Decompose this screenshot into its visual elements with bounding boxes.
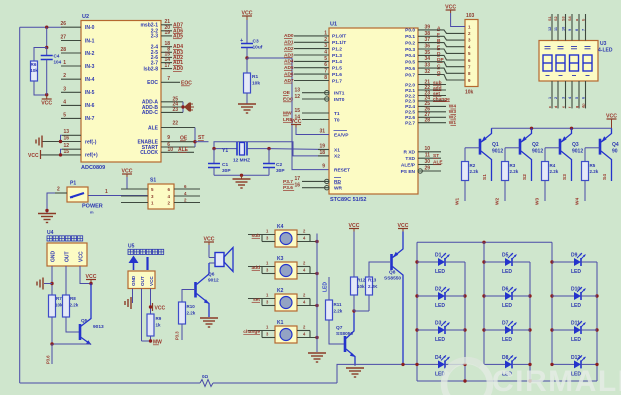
wire ALE-OE junction	[193, 128, 196, 148]
wire R13 to Q8 base	[369, 262, 390, 277]
speaker LS1	[209, 248, 233, 272]
wire base net W3	[535, 181, 546, 206]
ground below crystal	[233, 175, 251, 188]
VCC above Q4 rail	[606, 114, 617, 129]
svg-text:P1: P1	[70, 181, 76, 187]
svg-text:6: 6	[324, 62, 327, 68]
U1 pin 29 PSEN	[401, 166, 441, 175]
RP1 pin numbers 1-9	[468, 24, 471, 83]
resistor 0 ohm pad in bottom wire	[20, 374, 337, 387]
svg-text:P0.1: P0.1	[405, 34, 415, 40]
svg-text:Q7: Q7	[336, 325, 343, 331]
U2 pin 5 IN-7	[61, 112, 95, 122]
svg-text:9013: 9013	[93, 324, 104, 330]
svg-text:Q5: Q5	[81, 318, 88, 324]
wire K1 right to common	[297, 325, 319, 340]
svg-text:D5: D5	[502, 253, 509, 259]
svg-text:IN-4: IN-4	[85, 77, 95, 83]
svg-text:Q3: Q3	[572, 142, 579, 148]
svg-text:7: 7	[167, 76, 170, 82]
U1 pin 21 P2.0 net sub	[405, 79, 446, 88]
svg-text:2: 2	[57, 187, 60, 193]
svg-text:SS8050: SS8050	[336, 331, 353, 337]
svg-text:W3: W3	[535, 197, 541, 205]
svg-text:GND: GND	[131, 275, 136, 286]
svg-text:U5: U5	[128, 244, 135, 250]
U1 pin 28 P2.7 net W1	[405, 118, 456, 127]
resistor R11 2.2k	[326, 300, 343, 320]
U1 pin 32 P0.7 net G to RP1	[405, 69, 465, 80]
svg-text:9: 9	[568, 29, 572, 31]
svg-text:LED: LED	[435, 303, 445, 309]
wire P1 to ground	[45, 193, 55, 213]
svg-text:W2: W2	[495, 197, 501, 205]
U5 label hongwai jieshou mokuai	[128, 249, 164, 254]
svg-text:C1: C1	[222, 162, 228, 168]
wire LED matrix bottom return	[415, 363, 598, 383]
watermark CIRMALL	[444, 360, 621, 395]
U5 VCC wire	[149, 289, 152, 315]
svg-text:11: 11	[554, 27, 558, 31]
svg-text:IN-7: IN-7	[85, 116, 95, 122]
resistor network RP1 103 body	[465, 20, 478, 87]
wire Q5 emitter net	[50, 342, 91, 345]
U2 pin 28 IN-2	[60, 47, 94, 57]
svg-text:ref(-): ref(-)	[85, 139, 97, 145]
svg-text:13: 13	[294, 88, 300, 94]
U2 pin 14 2-7 net AD1	[151, 57, 183, 67]
U1 pin 23 P2.2 net set	[405, 90, 446, 99]
svg-text:INT0: INT0	[334, 97, 345, 103]
svg-text:U4: U4	[47, 230, 54, 236]
U1 pin 4 P1.3 net AD3	[284, 50, 342, 59]
svg-text:90: 90	[612, 149, 618, 155]
LED D10	[569, 287, 587, 310]
VCC tap at R9	[153, 303, 166, 312]
wire base net W2	[495, 181, 506, 206]
svg-text:T0: T0	[334, 117, 340, 123]
svg-text:CIRMALL: CIRMALL	[492, 365, 621, 395]
svg-text:P0.6: P0.6	[405, 66, 415, 72]
svg-text:4-LED: 4-LED	[598, 48, 613, 54]
svg-text:P2.0: P2.0	[405, 82, 415, 88]
svg-text:P1.1/T: P1.1/T	[332, 40, 346, 46]
wire K4 left net sub	[248, 229, 275, 242]
wire net P3.6	[46, 344, 53, 364]
svg-text:CLOCK: CLOCK	[140, 150, 158, 156]
svg-text:1: 1	[105, 189, 108, 195]
node Q8 collector to row4	[401, 363, 404, 366]
svg-text:P0.5: P0.5	[405, 60, 415, 66]
svg-text:P2.6: P2.6	[405, 115, 415, 121]
ground below R1	[238, 93, 256, 113]
resistor R13 2.2K	[366, 277, 373, 295]
U1 value label STC89C51/52	[330, 197, 366, 203]
svg-text:10: 10	[424, 146, 430, 152]
svg-text:K1: K1	[277, 320, 284, 326]
svg-text:U3: U3	[600, 41, 607, 47]
transistor Q5 9013	[80, 284, 104, 345]
svg-text:29: 29	[424, 166, 430, 172]
svg-text:2.2k: 2.2k	[550, 169, 559, 174]
connector S1 body	[148, 184, 174, 209]
U2 pin ref(+)	[41, 143, 98, 159]
svg-text:GND: GND	[51, 251, 57, 263]
wire LED column return x597	[595, 262, 598, 381]
svg-text:Q1: Q1	[492, 142, 499, 148]
LED D3	[433, 321, 451, 344]
svg-text:TXD: TXD	[405, 156, 415, 162]
U4 label renti ganying mokuai	[47, 236, 83, 241]
svg-text:17: 17	[294, 176, 300, 182]
svg-text:9: 9	[322, 164, 325, 170]
svg-text:LED: LED	[571, 337, 581, 343]
svg-text:S2: S2	[522, 174, 528, 180]
svg-text:P2.2: P2.2	[405, 93, 415, 99]
wire K2 left net set	[248, 293, 275, 306]
U5 ground	[125, 289, 133, 310]
svg-text:S1: S1	[548, 16, 552, 21]
svg-text:5: 5	[63, 112, 66, 118]
svg-text:ADD-C: ADD-C	[142, 110, 158, 116]
transistor Q7 SS8050	[336, 311, 355, 365]
U1 pin 2 P1.1/T net AD1	[284, 37, 346, 46]
svg-text:15: 15	[294, 108, 300, 114]
svg-text:R12: R12	[357, 278, 366, 283]
wire button common	[316, 234, 318, 353]
svg-text:P1.7: P1.7	[332, 78, 342, 84]
crystal junctions	[212, 147, 270, 150]
svg-text:IN-3: IN-3	[85, 64, 95, 70]
ground at Q7 emitter	[346, 365, 364, 378]
svg-text:Q8: Q8	[389, 270, 396, 276]
U1 pin 17 RD net P3.7	[283, 176, 341, 185]
wire LED row D11	[552, 329, 597, 331]
wire K4 right to common	[297, 229, 319, 244]
display segment pin marks	[545, 47, 591, 76]
VCC above Q8	[398, 223, 409, 232]
wire crystal to X1	[269, 148, 329, 151]
svg-text:9012: 9012	[532, 149, 543, 155]
svg-text:10k: 10k	[465, 90, 474, 96]
svg-text:R XD: R XD	[404, 150, 416, 156]
VCC tap at ref(+)	[28, 150, 41, 159]
svg-text:26: 26	[60, 21, 66, 27]
svg-text:2.2K: 2.2K	[368, 284, 378, 289]
U2 pin 26 IN-0	[20, 21, 95, 31]
VCC above C3	[242, 11, 253, 21]
svg-text:T1: T1	[334, 111, 340, 117]
U4 refdes	[47, 230, 54, 236]
svg-text:lsb2-8: lsb2-8	[144, 66, 159, 72]
U1 pin 24 P2.3 net change	[405, 96, 450, 105]
svg-text:X2: X2	[334, 154, 340, 160]
analog ground at U2 ref(-)	[36, 136, 42, 148]
crystal Y1 12MHZ	[214, 142, 269, 164]
U1 pin 15 T1 net MW	[283, 108, 340, 117]
wire LED column rail x484	[482, 242, 485, 364]
U2 pin 7 EOC	[147, 76, 192, 87]
svg-text:LED: LED	[571, 269, 581, 275]
wire LED column return x465	[463, 262, 466, 381]
svg-text:16: 16	[294, 183, 300, 189]
U1 pin 8 P1.7 net AD7	[284, 75, 342, 84]
svg-text:S1: S1	[482, 174, 488, 180]
wire LED row D2	[417, 295, 465, 297]
svg-text:P1.4: P1.4	[332, 59, 342, 65]
U1 pin 9 RESET	[322, 164, 350, 174]
svg-text:2-3: 2-3	[151, 34, 158, 40]
LED D6	[500, 287, 518, 310]
display bottom pin labels	[548, 96, 586, 108]
svg-text:P0.0: P0.0	[405, 28, 415, 34]
svg-text:RESET: RESET	[334, 167, 350, 173]
svg-text:VCC: VCC	[79, 251, 85, 262]
op-amp U1 STC89C52 body	[329, 28, 418, 194]
svg-text:R11: R11	[334, 302, 343, 307]
P1 tiny label	[90, 210, 94, 215]
ground below buttons	[308, 353, 326, 362]
svg-text:e: e	[562, 106, 566, 108]
wire LED matrix top rail	[417, 241, 552, 244]
capacitor C3 10uf electrolytic	[240, 20, 263, 58]
S1 refdes	[150, 178, 156, 184]
svg-text:WR: WR	[334, 186, 343, 192]
U1 pin 38 P0.1 net F to RP1	[405, 31, 465, 40]
VCC above speaker	[204, 237, 215, 246]
svg-text:D9: D9	[571, 253, 578, 259]
svg-text:OUT: OUT	[65, 251, 71, 262]
wire R6 bottom to node	[34, 81, 48, 96]
svg-text:10: 10	[562, 27, 566, 31]
svg-text:15: 15	[63, 149, 69, 155]
svg-text:C3: C3	[253, 39, 259, 45]
wire LED row D1	[417, 261, 465, 263]
U1 pin 33 P0.6 net C to RP1	[405, 63, 465, 74]
wire bottom step to LED row4	[337, 364, 417, 383]
svg-text:P1.6: P1.6	[332, 72, 342, 78]
U1 pin 22 P2.1 net add	[405, 85, 446, 94]
op-amp U2 ADC0809 body	[81, 21, 161, 163]
transistor Q3 9012	[545, 128, 583, 181]
svg-text:10k: 10k	[252, 81, 260, 87]
U2 pin 2 IN-4	[61, 73, 95, 83]
wire crystal ground rail	[214, 174, 269, 177]
svg-text:9: 9	[167, 135, 170, 141]
LED D9	[569, 253, 587, 276]
display top pin wires	[552, 14, 586, 41]
svg-text:7: 7	[324, 69, 327, 75]
svg-text:0Ω: 0Ω	[202, 374, 209, 379]
capacitor C1 30P	[208, 149, 231, 176]
U2 pins 25 24 23 ADD-A ADD-B ADD-C	[142, 96, 185, 116]
svg-text:OUT: OUT	[140, 276, 145, 286]
svg-text:10k: 10k	[357, 284, 365, 289]
wire R12 R13 bottoms	[354, 295, 369, 311]
svg-text:W4: W4	[575, 197, 581, 205]
svg-text:R10: R10	[187, 304, 196, 309]
button K1 change	[275, 320, 297, 343]
svg-text:2: 2	[554, 97, 558, 99]
svg-text:3: 3	[63, 86, 66, 92]
svg-text:INT1: INT1	[334, 91, 345, 97]
svg-text:2.2k: 2.2k	[470, 169, 479, 174]
svg-text:IN-5: IN-5	[85, 90, 95, 96]
svg-text:P2.4: P2.4	[405, 104, 415, 110]
svg-text:LED: LED	[435, 337, 445, 343]
wire LED row D6	[484, 295, 530, 297]
wire LED row D3	[417, 329, 465, 331]
svg-text:5: 5	[575, 97, 579, 99]
svg-text:P3.6: P3.6	[46, 355, 51, 364]
wire LED row D5	[484, 261, 530, 263]
wire base net W4	[575, 181, 586, 206]
U1 pin 34 P0.5 net DP to RP1	[405, 56, 465, 66]
U2 pin 22 ALE	[148, 121, 195, 132]
U1 refdes	[330, 22, 337, 28]
button K2 set	[275, 288, 297, 311]
svg-text:D7: D7	[502, 321, 509, 327]
svg-text:S3: S3	[562, 16, 566, 21]
sensor module U5 body	[128, 271, 155, 289]
wire RESET net to U1	[247, 58, 329, 170]
svg-text:104: 104	[54, 60, 62, 65]
svg-text:ref(+): ref(+)	[85, 153, 98, 159]
wire K3 right to common	[297, 261, 319, 276]
svg-text:LED: LED	[502, 269, 512, 275]
U2 pin 3 IN-5	[61, 86, 95, 96]
U1 pin 19 X1	[318, 144, 340, 154]
wire K3 left net add	[248, 261, 275, 274]
U1 pin 36 P0.3 net E to RP1	[405, 44, 465, 54]
transistor Q2 9012	[505, 128, 543, 181]
P1 label POWER	[82, 204, 103, 210]
svg-text:2.2k: 2.2k	[187, 311, 196, 316]
svg-text:dp: dp	[582, 103, 586, 108]
svg-text:R7: R7	[56, 296, 62, 301]
wire net LED	[323, 277, 330, 300]
svg-text:K2: K2	[277, 288, 284, 294]
svg-text:5: 5	[324, 56, 327, 62]
svg-text:IN-6: IN-6	[85, 103, 95, 109]
svg-text:X1: X1	[334, 147, 340, 153]
svg-text:6: 6	[582, 97, 586, 99]
svg-text:VCC: VCC	[28, 153, 39, 159]
svg-text:P0.3: P0.3	[405, 47, 415, 53]
connector P1 body	[67, 187, 88, 202]
node RESET junction	[245, 56, 248, 59]
LED D8	[500, 355, 518, 378]
svg-text:K4: K4	[277, 224, 284, 230]
svg-text:D8: D8	[502, 355, 509, 361]
U1 pin 10 RXD	[404, 146, 441, 156]
P1 pin 2	[55, 187, 67, 194]
svg-text:C4: C4	[54, 54, 60, 59]
svg-text:1: 1	[324, 30, 327, 36]
VCC below R6 C4	[41, 95, 52, 107]
U1 pin 16 WR net P3.6	[283, 183, 343, 192]
svg-text:23: 23	[172, 107, 178, 113]
U2 pin 18 2-4 net AD4	[151, 41, 183, 51]
wire K1 left net change	[243, 325, 275, 338]
IR arrows into U5	[129, 256, 148, 271]
svg-text:R4: R4	[550, 163, 556, 168]
wire K2 right to common	[297, 293, 319, 308]
svg-text:27: 27	[60, 35, 66, 41]
ground below P1	[38, 214, 56, 223]
resistor R9 1k	[147, 314, 162, 336]
svg-text:D2: D2	[435, 287, 442, 293]
svg-text:Q6: Q6	[208, 272, 215, 278]
U2 value label ADC0809	[81, 165, 105, 171]
display U3 4-LED body	[539, 41, 598, 82]
svg-text:P3.3: P3.3	[175, 331, 180, 340]
svg-text:30P: 30P	[276, 168, 285, 174]
resistor R7 10k	[49, 295, 64, 317]
display top pin labels	[548, 15, 586, 31]
U1 pin 31 EA/VP with VCC	[291, 119, 350, 138]
ground at U4	[37, 278, 52, 290]
svg-text:LED: LED	[502, 337, 512, 343]
svg-text:Q4: Q4	[612, 142, 619, 148]
svg-text:12: 12	[294, 94, 300, 100]
svg-text:S2: S2	[554, 16, 558, 21]
wire LED column return x530	[528, 262, 531, 381]
svg-text:8: 8	[575, 29, 579, 31]
resistor R10 2.2k	[179, 302, 196, 324]
wire IN-0 tap down	[45, 26, 48, 50]
svg-text:11: 11	[425, 152, 431, 158]
U4 VCC wire	[80, 266, 97, 285]
transistor Q8 SS8550	[384, 232, 403, 365]
svg-text:30P: 30P	[222, 168, 231, 174]
capacitor C4 104	[41, 48, 62, 95]
svg-text:LED: LED	[435, 269, 445, 275]
wire LED row D9	[552, 261, 597, 263]
U2 pin 4 IN-6	[61, 99, 95, 109]
svg-text:D11: D11	[571, 321, 580, 327]
svg-text:R5: R5	[590, 163, 596, 168]
wire VCC to speaker	[208, 245, 210, 258]
svg-text:8: 8	[324, 75, 327, 81]
wire LED row D4	[417, 363, 465, 365]
svg-text:m: m	[90, 210, 94, 215]
svg-text:R6: R6	[31, 62, 37, 67]
svg-text:10: 10	[167, 147, 173, 153]
svg-text:2.2k: 2.2k	[510, 169, 519, 174]
svg-text:LED: LED	[323, 282, 329, 292]
svg-text:LED: LED	[571, 303, 581, 309]
svg-text:P2.5: P2.5	[405, 110, 415, 116]
svg-text:P2.3: P2.3	[405, 99, 415, 105]
svg-text:1: 1	[63, 60, 66, 66]
LED D11	[569, 321, 587, 344]
svg-text:19: 19	[319, 144, 325, 150]
wire LED row D12	[552, 363, 597, 365]
LED D1	[433, 253, 451, 276]
svg-text:P0.7: P0.7	[405, 72, 415, 78]
svg-text:12 MHZ: 12 MHZ	[233, 158, 250, 164]
svg-text:IN-2: IN-2	[85, 51, 95, 57]
wire digit driver VCC rail	[492, 127, 612, 130]
svg-text:4: 4	[63, 99, 66, 105]
svg-text:+: +	[240, 38, 243, 44]
svg-text:10k: 10k	[30, 68, 38, 73]
svg-text:R1: R1	[252, 74, 258, 80]
svg-text:EA/VP: EA/VP	[334, 132, 349, 138]
svg-text:PS EN: PS EN	[401, 169, 416, 175]
RP1 value 10k	[465, 90, 474, 96]
